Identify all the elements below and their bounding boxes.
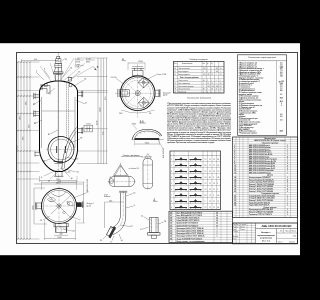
svg-text:1: 1 — [287, 154, 288, 156]
svg-text:1: 1 — [287, 161, 288, 163]
svg-text:50: 50 — [220, 89, 222, 91]
svg-text:корпус: корпус — [239, 114, 244, 116]
svg-text:18 Испытание аппарата: 18 Испытание аппарата — [239, 110, 258, 112]
svg-text:8: 8 — [217, 189, 218, 191]
svg-text:5: 5 — [171, 183, 172, 185]
svg-text:25: 25 — [234, 205, 236, 207]
svg-text:е) пожароопасность: е) пожароопасность — [239, 90, 255, 92]
svg-text:Масса: Масса — [286, 231, 291, 233]
svg-text:1: 1 — [287, 214, 288, 216]
svg-text:25: 25 — [211, 74, 213, 76]
svg-text:12: 12 — [209, 159, 211, 161]
lifting cone angle label — [129, 168, 140, 170]
svg-text:32: 32 — [170, 228, 172, 230]
svg-text:36: 36 — [216, 215, 218, 217]
manhole inner circle — [51, 139, 72, 160]
svg-text:Лист 1: Лист 1 — [278, 242, 283, 244]
svg-text:21 Мотор-редуктор: 21 Мотор-редуктор — [239, 127, 254, 129]
top view center shaft circle — [135, 91, 140, 96]
view I label near drive — [63, 59, 68, 62]
svg-text:С2: С2 — [213, 189, 215, 191]
tech requirements title — [187, 98, 211, 100]
dome lifting lug right — [69, 84, 72, 87]
svg-text:11 Скорость коррозии стенки: 11 Скорость коррозии стенки — [239, 92, 262, 94]
lifting vessel horizontal capsule — [108, 177, 137, 187]
specification table grid — [233, 137, 298, 218]
top view left flange box — [118, 89, 129, 97]
bottom view kidney cutout right — [67, 201, 73, 206]
internal transfer pipe curve — [62, 128, 77, 169]
tech characteristics title — [248, 57, 277, 59]
svg-text:Болт М16-6gх60.58 ГОСТ 7798-70: Болт М16-6gх60.58 ГОСТ 7798-70 — [177, 212, 203, 214]
svg-text:30°: 30° — [149, 113, 152, 115]
svg-text:0,1: 0,1 — [280, 94, 282, 96]
svg-text:11: 11 — [234, 168, 236, 170]
svg-text:№ докум.: № докум. — [240, 224, 247, 226]
vessel shell right wall — [77, 91, 79, 151]
title block right cells — [278, 231, 297, 244]
svg-text:С2: С2 — [205, 189, 207, 191]
bottom discharge nozzle — [54, 172, 63, 177]
bottom view vertical centerline — [58, 186, 60, 227]
svg-text:2: 2 — [217, 233, 218, 235]
svg-text:4 отв.: 4 отв. — [86, 59, 92, 61]
svg-text:8: 8 — [234, 161, 235, 163]
dome lifting lug left — [45, 84, 48, 87]
svg-text:Ду 50: Ду 50 — [87, 205, 91, 207]
lifting vertical label — [141, 157, 152, 159]
right dimension chain lines — [98, 58, 107, 164]
svg-text:Разраб.: Разраб. — [233, 226, 239, 228]
lifting vertical vessel — [143, 156, 153, 191]
view D nozzle body — [150, 218, 159, 233]
svg-text:1: 1 — [217, 236, 218, 238]
agitator gearbox — [55, 63, 62, 67]
bottom view diagonal spokes — [47, 194, 72, 218]
svg-text:Н1: Н1 — [217, 177, 219, 179]
svg-text:ОСТ 26-01-82-77: ОСТ 26-01-82-77 — [239, 109, 251, 111]
svg-text:1: 1 — [287, 202, 288, 204]
top view rotated square lug 1 — [138, 77, 149, 88]
svg-text:50: 50 — [220, 68, 222, 70]
svg-text:С2: С2 — [217, 171, 219, 173]
svg-text:Для уровнемера: Для уровнемера — [178, 89, 190, 91]
svg-text:2,5: 2,5 — [280, 63, 282, 65]
bottom view left stub nozzle — [35, 202, 41, 209]
svg-text:Б: Б — [175, 71, 176, 73]
svg-text:150: 150 — [203, 74, 206, 76]
agitator shaft — [57, 67, 59, 163]
bottom view horizontal centerline — [37, 205, 82, 207]
svg-text:* Размеры для справок: * Размеры для справок — [239, 133, 257, 135]
svg-text:устройством: устройством — [260, 236, 273, 239]
svg-text:сталь 12Х18Н10Т: сталь 12Х18Н10Т — [239, 125, 252, 127]
svg-text:У4: У4 — [213, 183, 215, 185]
svg-text:испытании, м3: испытании, м3 — [239, 120, 251, 122]
svg-text:0,8: 0,8 — [280, 68, 282, 70]
lifting scheme title — [121, 155, 141, 157]
svg-text:г) токсичность: г) токсичность — [239, 87, 250, 89]
elbow dim lines — [105, 200, 124, 228]
svg-text:15: 15 — [234, 179, 236, 181]
bottom view right dimension — [60, 182, 85, 223]
svg-text:6: 6 — [234, 156, 235, 158]
view D flange — [148, 233, 160, 236]
section B-B dome sliver — [131, 129, 164, 139]
svg-text:12: 12 — [209, 195, 211, 197]
svg-text:Детали: Детали — [267, 175, 273, 177]
tech requirements text lines — [167, 102, 232, 144]
svg-text:23: 23 — [234, 200, 236, 202]
svg-text:15 Группа аппарата: 15 Группа аппарата — [239, 103, 254, 105]
svg-text:12: 12 — [213, 201, 215, 203]
svg-text:Листов 1: Листов 1 — [289, 242, 295, 244]
svg-text:10 Характеристика среды:: 10 Характеристика среды: — [239, 79, 260, 81]
svg-text:20: 20 — [234, 191, 236, 193]
vessel bottom dimension line — [40, 176, 78, 182]
component leader callouts — [33, 68, 88, 174]
svg-text:25: 25 — [211, 83, 213, 85]
svg-text:гидравлическое, МПа:: гидравлическое, МПа: — [239, 112, 257, 114]
svg-text:1: 1 — [287, 170, 288, 172]
drawing sheet paper — [0, 43, 300, 255]
svg-text:28: 28 — [170, 218, 172, 220]
bottom parts table text — [170, 211, 218, 243]
vessel jacket line right — [74, 97, 76, 148]
svg-text:25: 25 — [220, 74, 222, 76]
bottom view right stub label — [87, 203, 94, 207]
svg-text:нет: нет — [280, 87, 283, 89]
section B-B flange band — [135, 138, 160, 140]
svg-text:6: 6 — [171, 189, 172, 191]
svg-text:В: В — [175, 74, 176, 76]
svg-text:нет: нет — [280, 90, 283, 92]
svg-text:5: 5 — [234, 154, 235, 156]
vessel shell left wall — [39, 91, 41, 151]
overall width dim above vessel — [22, 59, 59, 62]
svg-text:Ду 80: Ду 80 — [163, 95, 167, 97]
svg-text:5 Мощность эл.двигателя, кВт: 5 Мощность эл.двигателя, кВт — [239, 70, 263, 72]
dome right stub nozzle — [68, 78, 73, 81]
left dimension texts — [17, 101, 31, 150]
svg-text:0,3: 0,3 — [280, 74, 282, 76]
svg-text:1: 1 — [287, 149, 288, 151]
weld table sketches — [171, 157, 219, 209]
bottom view inner circle — [43, 190, 75, 222]
vessel dished bottom head — [40, 151, 78, 172]
tech characteristics text lines — [239, 63, 284, 135]
right shell nozzle C — [77, 91, 83, 97]
nozzle table title — [189, 59, 208, 61]
bottom tip leader fan — [41, 168, 79, 182]
callout label 2 top-right — [75, 64, 85, 69]
svg-text:Наименование: Наименование — [182, 63, 193, 65]
svg-text:1: 1 — [171, 159, 172, 161]
manhole cover bolts — [57, 146, 66, 153]
svg-text:9: 9 — [234, 163, 235, 165]
specification table text — [234, 138, 288, 216]
svg-text:2: 2 — [287, 163, 288, 165]
top view bolt circle — [125, 80, 151, 106]
svg-text:С2: С2 — [209, 171, 211, 173]
svg-text:Аппарат с: Аппарат с — [261, 231, 270, 234]
svg-text:31: 31 — [170, 225, 172, 227]
svg-text:Для клапана предохр.: Для клапана предохр. — [178, 86, 194, 88]
svg-text:Т3: Т3 — [205, 159, 207, 161]
callout label cluster 3 — [86, 59, 96, 64]
svg-text:нет: нет — [280, 88, 283, 90]
svg-text:Техническая характеристика: Техническая характеристика — [248, 57, 277, 59]
svg-text:1: 1 — [287, 198, 288, 200]
vessel dished top head — [40, 81, 78, 91]
svg-text:до 150: до 150 — [279, 81, 284, 83]
svg-text:12: 12 — [209, 207, 211, 209]
bottom view leaders — [40, 192, 90, 233]
svg-text:Таблица штуцеров: Таблица штуцеров — [189, 59, 208, 61]
svg-text:(В-4, Э-1): (В-4, Э-1) — [262, 241, 271, 243]
callout label top-right of drive — [75, 59, 85, 64]
svg-text:Н1: Н1 — [217, 207, 219, 209]
svg-text:7: 7 — [171, 195, 172, 197]
svg-text:25: 25 — [220, 86, 222, 88]
svg-text:Изм.Лист: Изм.Лист — [233, 224, 239, 226]
svg-text:1: 1 — [287, 177, 288, 179]
svg-text:2 отв. ∅18: 2 отв. ∅18 — [157, 73, 166, 76]
svg-text:АВБ 1615.00.00.000 ВО: АВБ 1615.00.00.000 ВО — [262, 224, 292, 228]
svg-text:Пров.: Пров. — [233, 229, 237, 231]
sheet frame border — [17, 53, 298, 244]
view D leaders — [140, 216, 167, 232]
svg-text:2: 2 — [171, 165, 172, 167]
svg-text:25: 25 — [216, 89, 218, 91]
svg-text:в) вязкость, Па с: в) вязкость, Па с — [239, 85, 252, 87]
svg-text:Прочие изделия: Прочие изделия — [264, 207, 277, 209]
svg-text:12 Тип мешалки - рамная: 12 Тип мешалки - рамная — [239, 96, 259, 98]
svg-text:30: 30 — [170, 223, 172, 225]
svg-text:16: 16 — [234, 182, 236, 184]
agitator mounting flange — [54, 72, 63, 75]
title block name — [257, 231, 275, 242]
svg-text:∅1700: ∅1700 — [111, 76, 117, 79]
top view diagonal centerline 2 — [125, 81, 152, 108]
left extension lines — [17, 62, 40, 239]
svg-text:240°: 240° — [119, 113, 123, 115]
svg-text:31: 31 — [77, 172, 79, 174]
svg-text:Н1: Н1 — [217, 195, 219, 197]
svg-text:150: 150 — [216, 71, 219, 73]
svg-text:У4: У4 — [209, 189, 211, 191]
svg-text:3: 3 — [217, 231, 218, 233]
svg-text:25: 25 — [220, 83, 222, 85]
title block grid — [233, 223, 298, 244]
agitator lantern stand — [55, 68, 63, 72]
svg-text:1: 1 — [287, 205, 288, 207]
svg-text:2: 2 — [287, 191, 288, 193]
view D label — [153, 199, 158, 202]
top view right stub label — [163, 93, 171, 97]
elbow end flange — [106, 225, 116, 238]
svg-text:1: 1 — [287, 145, 288, 147]
svg-text:Н1: Н1 — [205, 177, 207, 179]
svg-text:С2: С2 — [205, 207, 207, 209]
small section symbol circle — [109, 176, 114, 184]
top view leader 45 — [148, 73, 166, 79]
svg-text:Слив остатка: Слив остатка — [178, 80, 188, 82]
top view horizontal centerline — [115, 92, 161, 94]
svg-text:6: 6 — [41, 177, 42, 179]
svg-text:2: 2 — [234, 147, 235, 149]
svg-text:д) взрывоопасность: д) взрывоопасность — [239, 88, 255, 90]
svg-text:6 Давление в аппарате, МПа: 6 Давление в аппарате, МПа — [239, 72, 261, 74]
svg-text:910: 910 — [34, 59, 37, 61]
svg-text:10: 10 — [234, 166, 236, 168]
vessel vertical centerline — [57, 53, 59, 179]
svg-text:а) температура кипения, °С: а) температура кипения, °С — [239, 81, 261, 83]
svg-text:Масшт: Масшт — [292, 231, 297, 233]
vessel bottom dimension line 2 — [34, 182, 83, 184]
inset detail box right of vessel — [84, 124, 93, 132]
rotated label column below vessel — [86, 179, 89, 191]
svg-text:Выход продукта: Выход продукта — [178, 74, 190, 76]
bottom view top sweep curve — [52, 192, 67, 197]
svg-text:3: 3 — [234, 149, 235, 151]
title block signature texts — [233, 224, 247, 240]
svg-text:Иванов: Иванов — [240, 226, 245, 228]
svg-text:Для термометра: Для термометра — [178, 83, 190, 85]
view arrow A near vessel — [93, 65, 99, 70]
svg-text:1 Емкость аппарата, м3: 1 Емкость аппарата, м3 — [239, 63, 258, 65]
svg-text:17 Сварные швы по: 17 Сварные швы по — [239, 107, 255, 109]
svg-text:∅500: ∅500 — [138, 60, 143, 63]
svg-text:Г: Г — [175, 80, 176, 82]
svg-text:150: 150 — [216, 86, 219, 88]
elbow leaders — [100, 193, 136, 244]
lifting sling cone — [114, 163, 128, 177]
section B-B dim bottom — [135, 140, 160, 145]
svg-text:Н1: Н1 — [217, 159, 219, 161]
top head side nozzle with elbow — [41, 84, 50, 95]
svg-text:∅600: ∅600 — [132, 123, 137, 126]
top view diameter label — [111, 76, 125, 84]
manhole outer circle — [48, 137, 74, 163]
top view angle dims — [119, 110, 155, 115]
svg-text:8: 8 — [171, 201, 172, 203]
svg-text:Термометр ТТП ГОСТ 2823-73: Термометр ТТП ГОСТ 2823-73 — [249, 214, 272, 216]
manhole centerline — [46, 149, 76, 151]
svg-text:1: 1 — [287, 200, 288, 202]
svg-text:Документация: Документация — [264, 138, 275, 140]
svg-text:Т3: Т3 — [209, 201, 211, 203]
svg-text:9: 9 — [171, 207, 172, 209]
top view diagonal centerline — [124, 80, 152, 108]
svg-text:150: 150 — [211, 86, 214, 88]
bottom flange dim line — [54, 234, 68, 236]
elbow bend — [111, 213, 126, 235]
svg-text:27: 27 — [170, 215, 172, 217]
svg-text:∅520: ∅520 — [145, 141, 150, 144]
svg-text:2: 2 — [287, 168, 288, 170]
elbow top flange — [119, 191, 127, 192]
svg-text:33: 33 — [170, 231, 172, 233]
top view nozzle top stub — [131, 67, 144, 76]
internal level line — [42, 110, 75, 112]
elbow vertical pipe — [121, 193, 126, 215]
bottom view top dim line — [42, 181, 77, 190]
svg-text:1: 1 — [287, 147, 288, 149]
svg-text:0,6: 0,6 — [280, 72, 282, 74]
svg-text:2,0: 2,0 — [280, 64, 282, 66]
section B-B label — [139, 120, 146, 123]
right extension lines — [77, 58, 108, 164]
svg-text:150: 150 — [280, 75, 283, 77]
svg-text:Технические требования: Технические требования — [187, 98, 211, 100]
svg-text:Н.контр.: Н.контр. — [233, 236, 239, 238]
svg-text:С2: С2 — [205, 183, 207, 185]
svg-text:1300: 1300 — [280, 83, 284, 85]
svg-text:150: 150 — [207, 74, 210, 76]
svg-text:2: 2 — [281, 105, 282, 107]
lifting sling lines capsule — [115, 166, 130, 177]
svg-text:Кольцо упорное 12Х18Н10Т: Кольцо упорное 12Х18Н10Т — [249, 177, 271, 179]
svg-text:30: 30 — [71, 178, 73, 180]
bottom view left dimension — [32, 188, 47, 224]
svg-text:У4: У4 — [213, 171, 215, 173]
bottom flange centerline — [60, 222, 62, 236]
svg-text:80: 80 — [203, 89, 205, 91]
svg-text:160: 160 — [109, 200, 112, 202]
svg-text:Вход продукта: Вход продукта — [178, 71, 189, 73]
svg-text:Поз: Поз — [174, 63, 177, 65]
svg-text:25: 25 — [207, 83, 209, 85]
long leader fan from dome — [40, 58, 93, 83]
top view right stub nozzle — [155, 89, 160, 97]
section B-B dim top — [132, 123, 138, 130]
svg-text:3: 3 — [171, 171, 172, 173]
svg-text:80: 80 — [211, 89, 213, 91]
svg-text:У4: У4 — [213, 159, 215, 161]
left shell nozzle E at manhole level — [35, 152, 40, 157]
top view nozzle top dim — [128, 60, 145, 70]
top view vertical centerline — [137, 64, 139, 118]
nozzle table contents — [174, 63, 222, 93]
view A label — [122, 57, 127, 61]
agitator motor top box — [57, 56, 60, 59]
svg-text:26: 26 — [170, 212, 172, 214]
svg-text:1:10: 1:10 — [293, 236, 297, 238]
svg-text:220: 220 — [59, 234, 62, 236]
svg-text:С2: С2 — [217, 201, 219, 203]
svg-text:1: 1 — [287, 184, 288, 186]
svg-text:21: 21 — [234, 195, 236, 197]
left shell nozzle B — [34, 110, 40, 116]
svg-text:аппарата, мм/год: аппарата, мм/год — [239, 94, 252, 96]
section B-B leader rotated text — [158, 140, 165, 158]
svg-text:18: 18 — [234, 186, 236, 188]
svg-text:1: 1 — [287, 172, 288, 174]
svg-text:0,9: 0,9 — [280, 114, 282, 116]
svg-text:2: 2 — [287, 212, 288, 214]
section G-G label — [104, 194, 111, 197]
svg-text:17: 17 — [234, 184, 236, 186]
svg-text:Эл-ды Э-07Х20Н9 ГОСТ 10052-75: Эл-ды Э-07Х20Н9 ГОСТ 10052-75 — [177, 238, 203, 240]
svg-text:3250: 3250 — [280, 131, 284, 133]
svg-text:12: 12 — [209, 183, 211, 185]
svg-text:12: 12 — [234, 170, 236, 172]
title block doc number — [262, 224, 292, 228]
bottom view center hub — [57, 204, 61, 208]
vessel jacket line left — [41, 97, 43, 148]
nozzle table box — [174, 61, 225, 93]
